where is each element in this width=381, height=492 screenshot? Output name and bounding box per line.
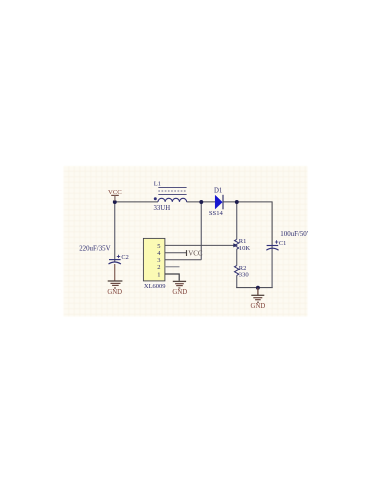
svg-text:C1: C1	[279, 240, 286, 247]
node: junction VCC/top rail	[113, 200, 117, 204]
arrow head into R1	[233, 243, 238, 247]
resistor R1 10K	[235, 238, 251, 252]
resistor R2 330	[235, 265, 250, 279]
power VCC (pin 4)	[187, 250, 203, 258]
capacitor C1	[266, 231, 308, 250]
wire: C1 bottom to bottom rail	[271, 246, 273, 288]
wire: top rail D1 to right corner, down to C1	[223, 202, 272, 245]
svg-text:GND: GND	[107, 289, 122, 296]
node: junction D1 cathode / R1	[235, 200, 239, 204]
svg-text:C2: C2	[121, 254, 128, 261]
wire: vertical from rail down to R1	[236, 202, 238, 239]
ground (pin 1)	[172, 281, 187, 296]
svg-text:10K: 10K	[239, 245, 251, 252]
svg-text:33UH: 33UH	[154, 205, 171, 212]
schematic sheet background	[64, 166, 308, 317]
svg-text:1: 1	[157, 271, 160, 278]
inductor L1	[154, 181, 187, 213]
svg-text:2: 2	[157, 264, 160, 271]
power VCC (top left)	[108, 189, 122, 201]
wire: C2 bottom to ground	[114, 264, 116, 281]
ground (bottom rail)	[251, 288, 266, 310]
svg-text:D1: D1	[214, 187, 222, 194]
svg-text:220uF/35V: 220uF/35V	[79, 246, 110, 253]
wire: R2 bottom to bottom rail	[236, 276, 238, 288]
wire: top rail left segment (VCC node to L1)	[115, 201, 158, 203]
svg-text:SS14: SS14	[209, 210, 224, 217]
diode D1 SS14	[209, 187, 224, 217]
pin 2 stub (n.c.)	[165, 266, 180, 268]
pin 5 wire (to R1 arrow)	[165, 244, 234, 246]
svg-text:XL6009: XL6009	[144, 283, 166, 290]
svg-text:GND: GND	[172, 289, 187, 296]
wire: bottom rail	[236, 287, 273, 289]
svg-text:VCC: VCC	[188, 250, 203, 258]
svg-text:330: 330	[239, 272, 250, 279]
pin 4 wire	[165, 252, 187, 254]
IC U1 XL6009	[143, 238, 165, 289]
svg-text:GND: GND	[251, 303, 266, 310]
capacitor C2	[79, 246, 129, 264]
pin 3 wire	[165, 259, 201, 261]
ground (under C2)	[107, 281, 122, 296]
node: junction bottom rail / ground	[256, 286, 260, 290]
svg-text:L1: L1	[154, 181, 161, 188]
svg-text:3: 3	[157, 257, 160, 264]
svg-text:5: 5	[157, 243, 160, 250]
pin 1 wire to ground	[165, 274, 179, 281]
wire: top rail L1 to D1	[187, 201, 216, 203]
wire: R1 bottom to R2 top	[236, 249, 238, 265]
svg-text:100uF/50': 100uF/50'	[280, 231, 308, 238]
wire: vertical from rail down to pin3 of U1	[200, 202, 202, 260]
node: junction L1-D1 / pin3 riser	[199, 200, 203, 204]
wire: vertical VCC node down to C2	[114, 202, 116, 263]
